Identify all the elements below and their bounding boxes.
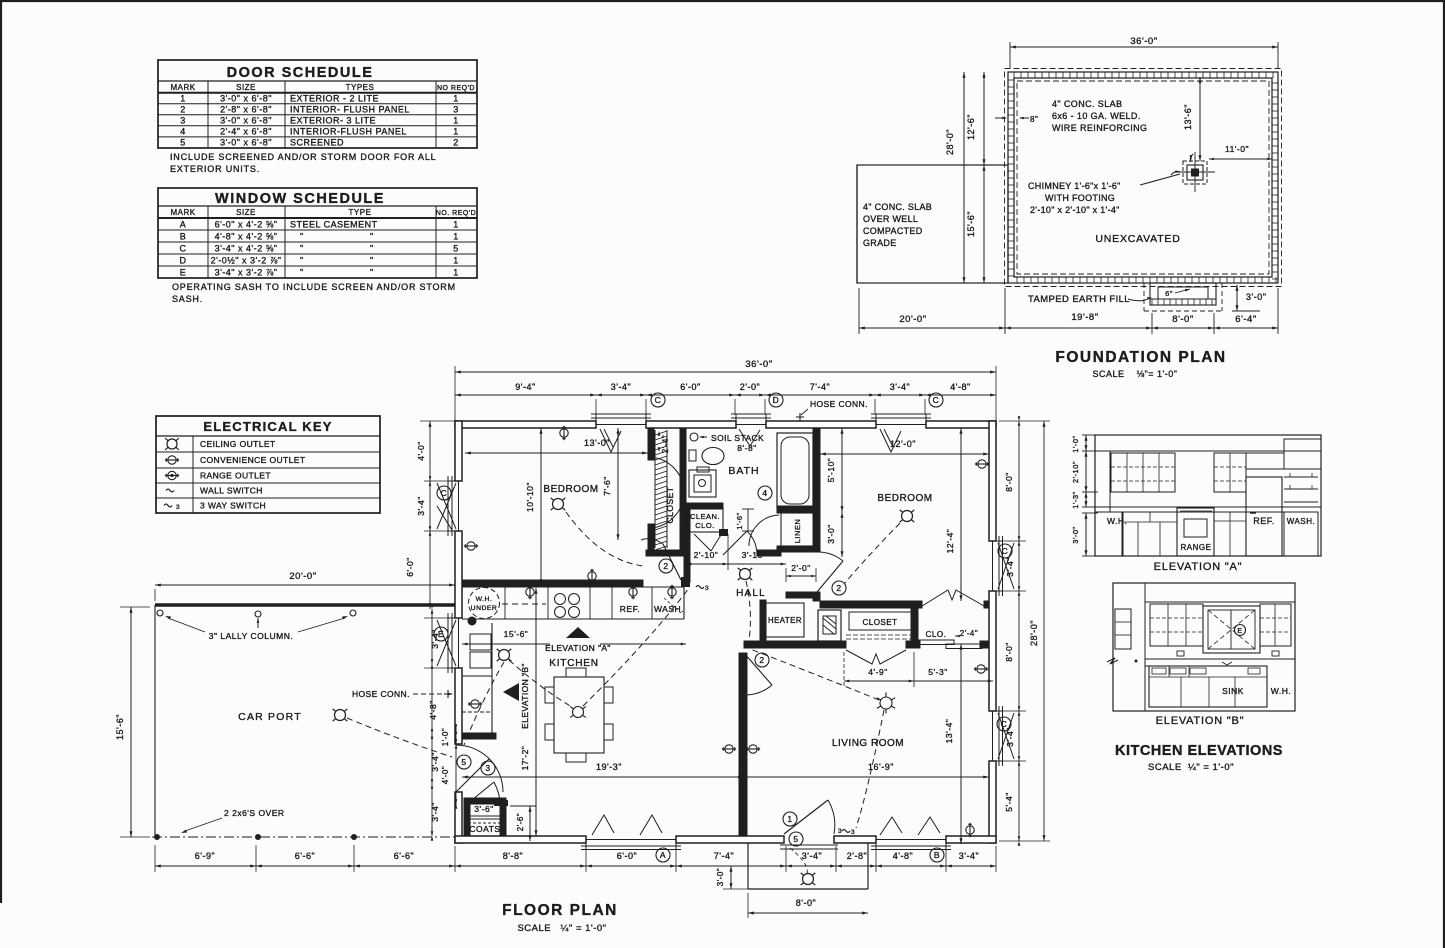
svg-text:3'-4": 3'-4" (1005, 557, 1015, 576)
svg-text:10'-10": 10'-10" (525, 482, 535, 512)
svg-text:KITCHEN ELEVATIONS: KITCHEN ELEVATIONS (1115, 743, 1283, 759)
window schedule note (172, 282, 456, 304)
svg-text:5'-10": 5'-10" (826, 458, 836, 483)
kitchen elevation A drawing (1095, 435, 1321, 556)
front door switch (838, 828, 855, 836)
svg-text:C: C (933, 395, 940, 405)
bedroom2 label (877, 493, 932, 504)
svg-text:SINK: SINK (1222, 686, 1244, 696)
bedroom1 label (543, 484, 598, 495)
svg-text:5: 5 (180, 138, 186, 148)
svg-text:1: 1 (453, 268, 459, 278)
svg-text:A: A (660, 850, 666, 860)
svg-text:UNDER: UNDER (471, 605, 498, 612)
svg-text:19'-8": 19'-8" (1071, 312, 1098, 323)
svg-text:D: D (180, 256, 187, 266)
svg-text:5: 5 (453, 244, 459, 254)
living room wire south (856, 710, 884, 828)
svg-text:CLO.: CLO. (926, 630, 947, 639)
bedroom2 dim 12'-4 (945, 428, 963, 601)
exterior walls (455, 421, 996, 843)
clean closet (687, 509, 723, 532)
porch dim 3'-0 (716, 866, 752, 889)
foundation dim 8 wall (995, 115, 1038, 124)
svg-text:1'-0": 1'-0" (1071, 435, 1080, 452)
svg-text:FOUNDATION PLAN: FOUNDATION PLAN (1055, 349, 1226, 366)
svg-text:ELEVATION "B": ELEVATION "B" (520, 663, 530, 729)
window C2 mark (929, 393, 943, 407)
bedroom1 door (641, 539, 681, 580)
svg-text:ELEVATION "A": ELEVATION "A" (1154, 561, 1243, 573)
closet1 hatch and doors (649, 430, 684, 550)
svg-text:6'-6": 6'-6" (394, 851, 414, 861)
carport outline (152, 605, 455, 840)
svg-text:2: 2 (180, 105, 186, 115)
window D top (731, 414, 771, 446)
svg-text:EXTERIOR- 3 LITE: EXTERIOR- 3 LITE (290, 116, 376, 126)
interior walls (462, 428, 989, 836)
svg-text:15'-6": 15'-6" (966, 211, 976, 237)
svg-text:3: 3 (838, 828, 842, 835)
bedroom1 dim 10'-10 (525, 428, 543, 585)
living room wire west (750, 649, 879, 700)
svg-text:1: 1 (453, 220, 459, 230)
bedroom2 dim 5'-10 (826, 428, 844, 512)
floor plan title (502, 902, 618, 919)
svg-text:TAMPED EARTH FILL: TAMPED EARTH FILL (1028, 294, 1130, 305)
door 5 mark carport (457, 755, 471, 769)
svg-text:3'-4": 3'-4" (959, 851, 979, 861)
hall ceiling outlet (738, 568, 753, 580)
svg-text:4'-9": 4'-9" (868, 667, 887, 677)
linen closet (781, 513, 815, 546)
closet2 front (849, 612, 911, 630)
kitchen elevations scale (1148, 762, 1234, 773)
svg-text:13'-6": 13'-6" (1183, 104, 1193, 130)
closet dim 7'-6 (602, 428, 620, 540)
svg-text:FLOOR PLAN: FLOOR PLAN (502, 902, 618, 919)
bedroom2 door (817, 552, 843, 592)
svg-text:GRADE: GRADE (863, 238, 897, 248)
svg-text:2: 2 (453, 138, 459, 148)
svg-text:2: 2 (663, 561, 668, 571)
svg-text:CAR PORT: CAR PORT (238, 711, 302, 723)
svg-text:2'-8": 2'-8" (847, 851, 867, 861)
svg-text:SIZE: SIZE (236, 83, 256, 92)
svg-text:5: 5 (461, 757, 466, 767)
foundation dim 12'-6 left (930, 72, 1008, 165)
svg-text:CLOSET: CLOSET (862, 618, 897, 627)
window D mark (769, 393, 783, 407)
electrical key table (156, 416, 380, 513)
svg-text:2'-0": 2'-0" (740, 382, 760, 392)
carport dim 20'-0 (155, 571, 455, 601)
tamped earth fill note (1028, 294, 1152, 305)
svg-text:20'-0": 20'-0" (289, 571, 316, 582)
svg-text:3: 3 (176, 504, 180, 511)
svg-text:WALL SWITCH: WALL SWITCH (200, 486, 263, 496)
svg-text:REF.: REF. (1253, 516, 1275, 526)
svg-text:2 2x6'S OVER: 2 2x6'S OVER (224, 808, 285, 818)
linen door (749, 515, 779, 546)
window C3 mark (437, 486, 451, 500)
svg-text:12'-4": 12'-4" (945, 529, 955, 554)
closet3 label (926, 629, 979, 639)
dim 36'-0 top (455, 359, 996, 421)
bedroom2 outlets (975, 460, 989, 468)
bedroom1 dim 13'-0 (465, 438, 648, 455)
svg-text:3'-4": 3'-4" (890, 382, 910, 392)
svg-text:6'-0": 6'-0" (617, 851, 637, 861)
foundation dim 28'-0 left (945, 72, 966, 283)
soil stack (690, 433, 764, 443)
svg-text:3'-4" x 4'-2 ⅝": 3'-4" x 4'-2 ⅝" (215, 244, 278, 254)
svg-text:1: 1 (787, 814, 792, 824)
dim chain left lower (428, 604, 440, 841)
svg-text:1: 1 (453, 116, 459, 126)
foundation dim 11'-0 (1209, 144, 1272, 160)
svg-text:3'-0": 3'-0" (716, 868, 725, 886)
svg-text:DOOR SCHEDULE: DOOR SCHEDULE (227, 65, 374, 81)
svg-text:COATS: COATS (469, 824, 500, 834)
svg-text:6x6 - 10 GA. WELD.: 6x6 - 10 GA. WELD. (1052, 111, 1141, 121)
closet3 bifold (922, 590, 984, 606)
living room light (877, 693, 895, 714)
window C2 top (871, 414, 931, 452)
svg-text:5'-3": 5'-3" (928, 667, 947, 677)
window A bottom (581, 815, 681, 850)
bath toilet (689, 467, 716, 497)
dim chain bottom (455, 846, 996, 872)
window C1 mark (651, 393, 665, 407)
svg-text:SCREENED: SCREENED (290, 138, 344, 148)
svg-text:WIRE REINFORCING: WIRE REINFORCING (1052, 123, 1147, 133)
bath dim 8'-8 (737, 443, 756, 453)
svg-text:C: C (180, 244, 187, 254)
svg-text:ELECTRICAL KEY: ELECTRICAL KEY (203, 419, 332, 434)
carport bottom dims (155, 845, 455, 872)
window E left (437, 613, 462, 673)
hall switch wire (746, 581, 750, 640)
bath label (728, 465, 759, 477)
elevation A title (1154, 561, 1243, 573)
bedroom1 light (551, 498, 566, 510)
svg-text:RANGE: RANGE (1181, 543, 1212, 552)
svg-text:INTERIOR-FLUSH PANEL: INTERIOR-FLUSH PANEL (290, 127, 407, 137)
kitchen table (545, 668, 613, 762)
svg-text:2'-10" x 2'-10" x 1'-4": 2'-10" x 2'-10" x 1'-4" (1030, 205, 1120, 215)
svg-text:16'-9": 16'-9" (868, 762, 894, 772)
coats closet interior (468, 800, 508, 834)
hall label (736, 588, 766, 599)
svg-text:3'-4": 3'-4" (1005, 727, 1015, 746)
svg-text:C: C (655, 395, 662, 405)
kitchen west counter (462, 623, 492, 737)
svg-text:W.H.: W.H. (476, 596, 493, 603)
svg-text:MARK: MARK (170, 208, 195, 217)
foundation stoop (1144, 283, 1222, 311)
kitchen lights link wire (509, 660, 572, 707)
svg-text:CEILING OUTLET: CEILING OUTLET (200, 439, 276, 449)
bedroom1 outlets (464, 426, 596, 583)
svg-text:HALL: HALL (736, 588, 766, 599)
porch (748, 843, 868, 889)
svg-text:1: 1 (453, 232, 459, 242)
bedroom2 switch wire (845, 523, 900, 583)
lally columns (157, 610, 356, 641)
carport 2x6 note (181, 808, 285, 833)
svg-text:4'-0": 4'-0" (416, 441, 426, 460)
window C5 right (989, 706, 1014, 766)
svg-text:3: 3 (705, 585, 709, 592)
svg-text:5'-4": 5'-4" (1004, 792, 1014, 811)
door 4 mark (758, 486, 772, 500)
svg-text:6'-6": 6'-6" (295, 851, 315, 861)
svg-text:SOIL STACK: SOIL STACK (711, 433, 764, 443)
svg-text:15'-6": 15'-6" (115, 714, 125, 740)
bath door 4 (723, 531, 757, 555)
svg-text:CLO.: CLO. (695, 521, 715, 530)
svg-text:6": 6" (1165, 289, 1173, 298)
svg-text:6'-0": 6'-0" (405, 557, 415, 576)
svg-text:12'-0": 12'-0" (890, 439, 916, 449)
bedroom2 dim 3'-0 (826, 512, 844, 557)
kitchen ceiling light (497, 649, 512, 661)
svg-text:8'-8": 8'-8" (737, 443, 756, 453)
svg-text:3: 3 (851, 829, 855, 836)
svg-text:3'-4": 3'-4" (802, 851, 822, 861)
svg-text:D: D (773, 395, 780, 405)
carport door 5 (456, 745, 503, 792)
svg-text:3'-4": 3'-4" (611, 382, 631, 392)
svg-text:1'-0": 1'-0" (441, 728, 450, 746)
svg-text:4'-8" x 4'-2 ⅝": 4'-8" x 4'-2 ⅝" (215, 232, 278, 242)
elevation A marker (545, 627, 611, 653)
door 1 mark (783, 812, 797, 826)
svg-text:W.H.: W.H. (1271, 686, 1291, 696)
svg-text:1: 1 (453, 127, 459, 137)
svg-text:B: B (934, 850, 940, 860)
bath lavatory (689, 448, 724, 465)
svg-text:2'-4": 2'-4" (960, 629, 978, 638)
carport label (238, 711, 302, 723)
svg-text:3'-0" x 6'-8": 3'-0" x 6'-8" (220, 138, 272, 148)
svg-text:4: 4 (180, 127, 186, 137)
kitchen wash label (654, 598, 684, 614)
bedroom2 closet dim 4'-9 (844, 652, 914, 687)
closet2 shelves (846, 635, 911, 639)
hose conn carport (352, 689, 453, 699)
door schedule note (170, 152, 436, 174)
svg-text:STEEL CASEMENT: STEEL CASEMENT (290, 220, 378, 230)
svg-text:6'-9": 6'-9" (195, 851, 215, 861)
foundation chimney (1171, 152, 1215, 192)
foundation dim 15'-6 left (966, 165, 986, 283)
svg-text:NO REQ'D: NO REQ'D (437, 85, 475, 92)
hose conn top (796, 399, 868, 421)
svg-text:3 WAY SWITCH: 3 WAY SWITCH (200, 501, 266, 511)
living room label (832, 738, 904, 749)
svg-text:19'-3": 19'-3" (596, 762, 622, 772)
chimney note (1028, 174, 1180, 215)
svg-text:B: B (180, 232, 187, 242)
closet1 label (665, 486, 675, 523)
svg-text:1'-3": 1'-3" (1071, 491, 1080, 508)
front door 1 (780, 800, 838, 876)
svg-text:36'-0": 36'-0" (745, 359, 772, 370)
svg-text:INCLUDE SCREENED AND/OR STO: INCLUDE SCREENED AND/OR STORM DOOR FOR A… (170, 152, 436, 162)
svg-text:3'-0": 3'-0" (1246, 292, 1266, 302)
svg-text:2'-4" x 6'-8": 2'-4" x 6'-8" (220, 127, 272, 137)
foundation plan title (1055, 349, 1226, 366)
svg-text:3: 3 (485, 763, 490, 773)
svg-text:C: C (441, 488, 448, 498)
svg-text:3'-10": 3'-10" (742, 550, 767, 560)
svg-text:1'-6": 1'-6" (735, 512, 744, 529)
svg-text:6'-4": 6'-4" (1235, 314, 1256, 325)
bath tub (777, 433, 813, 508)
svg-text:2'-0½" x 3'-2 ⅞": 2'-0½" x 3'-2 ⅞" (211, 256, 282, 266)
svg-text:BEDROOM: BEDROOM (877, 493, 932, 504)
kitchen range burners (555, 594, 580, 618)
svg-text:1: 1 (453, 256, 459, 266)
foundation bottom dims (859, 288, 1278, 334)
window E mark (434, 627, 448, 641)
svg-text:COMPACTED: COMPACTED (863, 226, 923, 236)
kitchen west outlet (468, 700, 482, 708)
bedroom2 light (900, 510, 915, 522)
dim 28'-0 right (1029, 421, 1046, 841)
clean closet door (694, 529, 728, 551)
svg-text:": " (370, 256, 374, 266)
svg-text:": " (370, 244, 374, 254)
svg-text:OPERATING SASH TO INCLUDE: OPERATING SASH TO INCLUDE SCREEN AND/OR … (172, 282, 456, 292)
door 3 mark (481, 761, 495, 775)
svg-text:ELEVATION "B": ELEVATION "B" (1156, 715, 1245, 727)
floor plan scale (517, 923, 606, 934)
window B mark (930, 848, 944, 862)
kitchen counter outlets (526, 585, 676, 599)
svg-text:3: 3 (453, 105, 459, 115)
svg-text:INTERIOR- FLUSH PANEL: INTERIOR- FLUSH PANEL (290, 105, 410, 115)
svg-text:6'-0": 6'-0" (680, 382, 700, 392)
clean closet dim 1'-6 (735, 509, 754, 531)
svg-text:": " (370, 268, 374, 278)
chimney (818, 610, 841, 641)
kitchen ref label (620, 604, 640, 614)
svg-text:": " (370, 232, 374, 242)
svg-text:C: C (1002, 546, 1009, 556)
door 5 mark front (789, 832, 803, 846)
carport light (333, 709, 348, 721)
svg-text:3'-4" x 3'-2 ⅞": 3'-4" x 3'-2 ⅞" (215, 268, 278, 278)
svg-text:E: E (1237, 628, 1242, 635)
svg-text:3: 3 (180, 116, 186, 126)
kitchen table wire (583, 588, 689, 706)
kitchen dim 15'-6 (462, 629, 686, 645)
svg-text:": " (300, 256, 304, 266)
svg-text:": " (300, 268, 304, 278)
svg-text:2'-0": 2'-0" (791, 563, 810, 573)
svg-text:WITH FOOTING: WITH FOOTING (1045, 193, 1115, 203)
svg-text:ELEVATION "A": ELEVATION "A" (545, 643, 611, 653)
svg-text:WASH.: WASH. (654, 604, 684, 614)
living room door (744, 653, 772, 695)
svg-text:8'-0": 8'-0" (1172, 314, 1193, 325)
door 2 mark bedroom2 (832, 581, 846, 595)
kitchen elevation A dims (1071, 435, 1098, 556)
foundation slab note (1052, 99, 1147, 133)
svg-text:W.H.: W.H. (1107, 516, 1127, 526)
svg-text:7'-4": 7'-4" (810, 382, 830, 392)
door 2 mark bedroom1 (659, 559, 673, 573)
living room dim 16'-9 (738, 762, 989, 779)
svg-text:SCALE ¼" = 1'-0": SCALE ¼" = 1'-0" (1148, 762, 1234, 773)
foundation dim 36'-0 top (1010, 36, 1278, 68)
svg-text:8'-8": 8'-8" (503, 851, 523, 861)
svg-text:NO. REQ'D: NO. REQ'D (436, 210, 476, 217)
heater (766, 603, 804, 637)
water heater under (468, 588, 547, 626)
svg-text:2: 2 (759, 655, 764, 665)
svg-text:TYPES: TYPES (346, 83, 375, 92)
svg-text:BATH: BATH (728, 465, 759, 477)
svg-text:12'-6": 12'-6" (966, 114, 976, 140)
foundation wall (1005, 69, 1282, 287)
svg-text:13'-0": 13'-0" (584, 438, 610, 448)
svg-text:4'-8": 4'-8" (428, 700, 438, 719)
door 2 mark living room (755, 653, 769, 667)
svg-text:20'-0": 20'-0" (899, 314, 926, 325)
svg-text:8'-0": 8'-0" (1004, 642, 1014, 661)
svg-text:17'-2": 17'-2" (520, 746, 530, 771)
svg-text:HOSE CONN.: HOSE CONN. (352, 689, 410, 699)
svg-text:8'-0": 8'-0" (1004, 472, 1014, 491)
svg-text:4'-8": 4'-8" (950, 382, 970, 392)
door schedule table (158, 60, 477, 148)
dim chain left upper (405, 421, 455, 668)
kitchen elevation B drawing (1107, 583, 1295, 711)
svg-text:1: 1 (453, 94, 459, 104)
svg-text:CONVENIENCE OUTLET: CONVENIENCE OUTLET (200, 455, 305, 465)
foundation dim 3'-0 (1232, 285, 1266, 311)
svg-text:3'-0": 3'-0" (826, 524, 836, 543)
svg-text:3'-6": 3'-6" (474, 804, 493, 814)
svg-text:MARK: MARK (170, 83, 195, 92)
svg-text:TYPE: TYPE (349, 208, 372, 217)
porch light (801, 873, 816, 885)
svg-text:3'-4": 3'-4" (430, 629, 440, 648)
svg-text:8": 8" (1030, 115, 1038, 124)
window C4 mark (998, 544, 1012, 558)
window B bottom (871, 817, 951, 850)
svg-text:4" CONC. SLAB: 4" CONC. SLAB (1052, 99, 1122, 109)
dim chain door (441, 724, 457, 809)
svg-text:SASH.: SASH. (172, 294, 203, 304)
svg-text:1: 1 (180, 94, 186, 104)
closet1 dim 2'-4 (658, 430, 670, 453)
carport dim 15'-6 (115, 607, 150, 837)
svg-text:BEDROOM: BEDROOM (543, 484, 598, 495)
unexcavated label (1095, 233, 1180, 245)
svg-text:4" CONC. SLAB: 4" CONC. SLAB (863, 202, 932, 212)
elevation B title (1156, 715, 1245, 727)
svg-text:KITCHEN: KITCHEN (549, 658, 599, 669)
window C4 right (989, 536, 1014, 596)
bedroom1 switch wire (566, 512, 643, 566)
svg-text:3'-4": 3'-4" (416, 496, 426, 515)
carport light wire (347, 718, 452, 757)
